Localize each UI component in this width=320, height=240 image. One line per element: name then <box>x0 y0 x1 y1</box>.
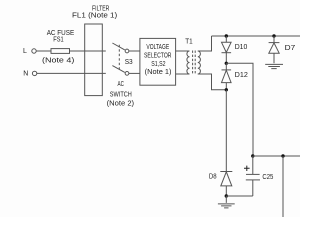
svg-text:(Note 2): (Note 2) <box>107 101 135 108</box>
wire D12 anode down to D8 <box>225 90 227 172</box>
wire T1 secondary bottom to D12 anode <box>198 74 227 90</box>
svg-text:N: N <box>23 71 28 78</box>
capacitor C25 <box>246 156 260 196</box>
svg-text:D7: D7 <box>285 45 296 52</box>
diode D8 <box>220 172 232 197</box>
fuse FS1 <box>51 49 70 54</box>
svg-text:VOLTAGE: VOLTAGE <box>146 44 169 51</box>
node DC output junction <box>225 62 228 65</box>
switch S3 pole A lever <box>112 43 124 50</box>
wire N terminal to switch <box>37 72 106 74</box>
label C25 plus sign <box>244 166 250 171</box>
transformer T1 primary winding <box>187 51 190 74</box>
node D7 junction <box>272 34 275 37</box>
ground at D7 <box>265 64 283 68</box>
wire DC output to bottom rail <box>226 63 253 156</box>
node bottom rail right junction <box>281 154 284 157</box>
terminal L <box>32 49 36 53</box>
svg-text:AC: AC <box>118 81 125 88</box>
node D8 anode junction <box>225 194 228 197</box>
svg-text:D8: D8 <box>209 174 217 181</box>
wire switch A to selector <box>129 50 140 52</box>
svg-text:T1: T1 <box>185 39 192 46</box>
transformer T1 core <box>193 51 196 75</box>
node D12 anode junction <box>225 88 228 91</box>
svg-text:SWITCH: SWITCH <box>110 91 132 98</box>
svg-text:(Note 4): (Note 4) <box>42 58 74 65</box>
node C25 positive junction <box>251 154 254 157</box>
wire L terminal to fuse <box>36 50 51 52</box>
switch S3 pole B contact <box>125 72 129 76</box>
switch S3 pole A contact <box>125 49 129 53</box>
svg-text:D10: D10 <box>235 44 248 51</box>
node D10 anode junction <box>225 34 228 37</box>
svg-text:C25: C25 <box>262 174 273 181</box>
svg-text:FILTER: FILTER <box>92 5 109 12</box>
svg-text:L: L <box>23 48 27 55</box>
switch S3 pole B lever <box>112 66 124 73</box>
transformer T1 secondary winding <box>198 51 201 74</box>
wire fuse to filter <box>70 50 106 52</box>
diode D10 <box>222 36 232 63</box>
wire D8 anode to C25 negative <box>226 195 253 197</box>
svg-text:FS1: FS1 <box>53 37 63 44</box>
diode D12 <box>222 63 232 90</box>
svg-text:S1,S2: S1,S2 <box>151 61 165 68</box>
svg-text:SELECTOR: SELECTOR <box>144 53 172 60</box>
wire selector to T1 primary bottom <box>176 73 190 75</box>
filter FL1 <box>85 24 103 96</box>
svg-text:FL1 (Note 1): FL1 (Note 1) <box>72 12 117 19</box>
voltage selector S1,S2 box <box>140 38 176 85</box>
wire top rail <box>212 35 301 37</box>
svg-text:S3: S3 <box>125 59 133 66</box>
wire T1 secondary top to rail <box>198 36 212 51</box>
svg-text:(Note 1): (Note 1) <box>145 69 172 76</box>
ground at D8 <box>218 196 235 208</box>
label AC SWITCH (Note 2) <box>107 81 135 108</box>
diode D7 <box>269 36 280 63</box>
terminal N <box>32 71 36 75</box>
svg-text:D12: D12 <box>235 72 248 79</box>
label VOLTAGE SELECTOR S1,S2 (Note 1) <box>144 44 172 76</box>
wire switch B to selector <box>129 72 140 74</box>
wire bottom rail <box>253 155 300 157</box>
wire selector to T1 primary top <box>176 50 190 52</box>
switch S3 linkage <box>118 45 120 70</box>
wire right vertical to edge <box>282 156 284 217</box>
